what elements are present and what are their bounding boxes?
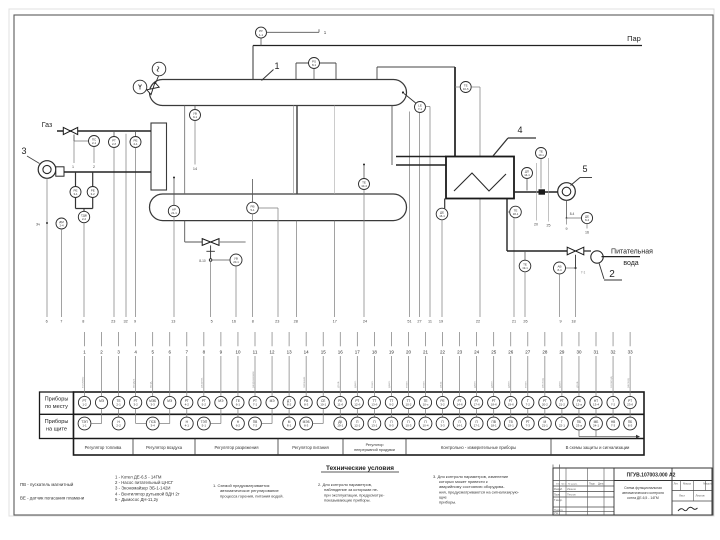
svg-text:17-б: 17-б: [474, 403, 480, 407]
svg-text:14: 14: [304, 349, 310, 354]
svg-text:7: 7: [60, 320, 62, 324]
svg-text:ПВ - пускатель магнитный: ПВ - пускатель магнитный: [20, 482, 74, 487]
instrument ТЕ 19-1: [519, 260, 531, 272]
svg-text:Масштаб: Масштаб: [703, 483, 714, 486]
svg-text:23-б: 23-б: [627, 403, 633, 407]
blower fan 3 inner: [43, 165, 51, 173]
svg-text:12-1: 12-1: [354, 424, 360, 428]
label 2 underline: [604, 279, 622, 281]
svg-text:8-4: 8-4: [585, 218, 589, 222]
safety valve stem: [155, 75, 159, 84]
instrument РВ 5-1 on lower drum: [247, 202, 259, 214]
tap nub on drum right end: [402, 91, 404, 93]
svg-text:темп.: темп.: [404, 380, 408, 388]
feedwater valve: [567, 247, 584, 255]
svg-text:15: 15: [321, 349, 327, 354]
svg-text:Листов: Листов: [695, 494, 705, 498]
signal line 21: [513, 218, 515, 317]
svg-text:2-1: 2-1: [92, 141, 96, 145]
manifold header: [296, 62, 336, 64]
svg-text:18: 18: [571, 320, 575, 324]
svg-text:7-3: 7-3: [611, 424, 616, 428]
svg-text:2-1: 2-1: [116, 403, 121, 407]
svg-text:9: 9: [559, 320, 561, 324]
table column 4: [130, 332, 147, 424]
svg-text:21: 21: [512, 320, 516, 324]
svg-text:10: 10: [235, 349, 241, 354]
svg-text:12-б: 12-б: [354, 403, 360, 407]
link stem to ПС 2-1: [74, 140, 89, 142]
svg-text:10-4: 10-4: [422, 424, 428, 428]
svg-text:Лист: Лист: [561, 484, 566, 486]
svg-text:уров.: уров.: [336, 381, 340, 388]
stem PS 8-1 down: [313, 69, 315, 80]
air duct: [64, 171, 151, 173]
junction circle: [209, 259, 212, 262]
svg-text:7-1: 7-1: [253, 403, 258, 407]
table column 32: [607, 332, 620, 430]
svg-text:Подп.: Подп.: [589, 483, 596, 486]
svg-text:30: 30: [576, 349, 582, 354]
label 3 leader: [27, 156, 40, 164]
svg-text:Т.контр.: Т.контр.: [554, 499, 563, 502]
table column 10: [232, 332, 245, 430]
svg-text:51: 51: [407, 320, 411, 324]
svg-text:питание: питание: [302, 376, 306, 388]
svg-text:10-1: 10-1: [320, 403, 326, 407]
tap ТЕ 18-1: [507, 211, 510, 213]
stem ТЕ 10-3: [540, 159, 542, 189]
gas control valve: [63, 127, 77, 134]
table column 6: [159, 332, 176, 424]
svg-text:2-2: 2-2: [82, 217, 86, 221]
leader nub to LE: [404, 94, 416, 104]
table column 16: [334, 332, 347, 430]
economizer box (4): [446, 157, 514, 199]
eco inlet pipe down: [506, 199, 508, 252]
blowdown pipe from drum: [184, 221, 186, 242]
stem ТЕ 19-1: [524, 251, 526, 260]
svg-text:16: 16: [585, 231, 589, 235]
feedwater pipe right: [584, 250, 591, 252]
table column 12: [261, 332, 278, 424]
svg-text:21-1: 21-1: [542, 424, 548, 428]
svg-text:10-3: 10-3: [405, 424, 411, 428]
link АВ 8-4 to stem: [566, 267, 576, 269]
svg-text:7-2: 7-2: [611, 403, 616, 407]
table column 17: [351, 332, 364, 430]
svg-text:8-3: 8-3: [304, 403, 309, 407]
svg-text:13: 13: [171, 320, 175, 324]
sampling dot above drum (21-1): [173, 177, 175, 179]
table column 26: [504, 332, 517, 430]
signal line 5: [210, 261, 212, 317]
signal line 51: [409, 112, 411, 318]
svg-text:7-2: 7-2: [526, 403, 531, 407]
svg-text:Питательная: Питательная: [611, 249, 653, 256]
table column 18: [368, 332, 381, 430]
svg-text:5: 5: [582, 164, 587, 174]
svg-text:8-5: 8-5: [628, 424, 633, 428]
table column 8: [197, 332, 210, 430]
svg-text:18-б: 18-б: [491, 403, 497, 407]
svg-text:Контрольно - измерительные при: Контрольно - измерительные приборы: [441, 445, 516, 450]
svg-text:26: 26: [523, 320, 527, 324]
svg-text:9-1: 9-1: [193, 115, 197, 119]
svg-text:топливо: топливо: [80, 376, 84, 388]
title block grid: [553, 465, 712, 516]
signal line 9 left: [135, 148, 137, 318]
svg-text:2: 2: [609, 269, 615, 280]
svg-text:25: 25: [491, 349, 497, 354]
svg-text:14-1: 14-1: [524, 173, 530, 177]
svg-text:Зч: Зч: [36, 223, 40, 227]
instrument PS 8-1 (drum level column): [309, 58, 320, 69]
feedwater pipe underline: [602, 256, 641, 258]
TE elbow right: [471, 86, 480, 88]
svg-text:21: 21: [423, 349, 429, 354]
svg-text:Масса: Масса: [683, 482, 691, 486]
svg-text:4 - Вентилятор дутьевой ВДН: 4 - Вентилятор дутьевой ВДН 2т: [115, 491, 180, 496]
svg-text:19: 19: [389, 349, 395, 354]
svg-text:23-а: 23-а: [576, 424, 582, 428]
svg-text:12: 12: [270, 349, 276, 354]
svg-text:МЭ: МЭ: [99, 399, 105, 403]
table column 19: [385, 332, 398, 430]
instrument РЕ 3-1: [70, 187, 81, 198]
svg-text:МЭ: МЭ: [270, 399, 276, 403]
group divider x=133: [132, 439, 134, 456]
svg-text:давл.: давл.: [353, 380, 357, 388]
svg-text:воздух: воздух: [131, 378, 135, 388]
table column 11: [249, 332, 262, 430]
svg-text:2 - Насос питательный ЦНСГ: 2 - Насос питательный ЦНСГ: [115, 480, 174, 485]
svg-text:20-2: 20-2: [542, 403, 548, 407]
signal line to note 1: [267, 31, 320, 33]
svg-text:на щите: на щите: [46, 427, 67, 433]
instrument РЕ 2-1: [130, 137, 141, 148]
signal line 26: [524, 272, 526, 317]
svg-text:7-1: 7-1: [581, 271, 586, 275]
svg-text:27: 27: [417, 320, 421, 324]
svg-text:2-б: 2-б: [112, 142, 116, 146]
svg-text:12-а: 12-а: [576, 403, 582, 407]
svg-text:10-з: 10-з: [423, 403, 429, 407]
signature scribble: [678, 507, 698, 511]
svg-text:процесса горения, питания во: процесса горения, питания водой.: [220, 493, 284, 498]
signal line 32: [125, 134, 127, 317]
table column 28: [538, 332, 551, 430]
instrument ТЕ 10-4: [359, 179, 370, 190]
riser pipe from drum top: [376, 67, 378, 80]
svg-text:8: 8: [252, 320, 254, 324]
svg-text:2-4: 2-4: [59, 224, 63, 228]
svg-text:Приборы: Приборы: [45, 397, 69, 403]
svg-text:возд.: возд.: [149, 381, 153, 388]
blowdown valve: [202, 239, 219, 246]
signal line 24: [363, 190, 365, 318]
svg-text:19-1: 19-1: [508, 424, 514, 428]
signal line 7: [61, 229, 63, 317]
svg-text:16: 16: [232, 320, 236, 324]
svg-text:3-4: 3-4: [151, 424, 156, 428]
signal line 20: [536, 163, 538, 221]
svg-text:Регулятор питания: Регулятор питания: [292, 445, 329, 450]
svg-text:1-1: 1-1: [259, 33, 263, 37]
stub line 9r: [566, 218, 568, 225]
gas valve stem wire: [73, 141, 75, 163]
svg-text:9-2: 9-2: [389, 403, 394, 407]
upper boiler drum (1): [150, 80, 407, 106]
svg-text:6: 6: [46, 320, 48, 324]
table column 22: [436, 332, 449, 430]
table column 14: [300, 332, 313, 430]
svg-text:20: 20: [534, 223, 538, 227]
svg-text:Регулятор воздуха: Регулятор воздуха: [146, 445, 183, 450]
signal line 17: [334, 221, 336, 317]
svg-text:2-2: 2-2: [116, 424, 121, 428]
svg-text:23: 23: [111, 320, 115, 324]
table column 7: [180, 332, 193, 430]
instrument РТ 2-б: [109, 137, 120, 148]
svg-text:10-з: 10-з: [538, 153, 544, 157]
furnace front box: [151, 123, 167, 190]
instrument ДЕ 16-1 at eco outlet: [436, 208, 448, 220]
table column 2: [91, 332, 108, 424]
svg-text:17: 17: [355, 349, 361, 354]
header pipe horizontal: [377, 66, 455, 68]
svg-text:26: 26: [508, 349, 514, 354]
svg-text:33: 33: [628, 349, 634, 354]
stem РЕ 3-2: [92, 172, 94, 187]
signal line 22: [479, 87, 481, 317]
table column 1: [78, 332, 91, 430]
table column 21: [419, 332, 432, 430]
wire from ПС 2-1: [93, 147, 95, 164]
instrument LE 7-1: [415, 102, 426, 113]
svg-text:16-1: 16-1: [439, 214, 445, 218]
smoke exhauster 5 inner: [562, 187, 571, 196]
svg-text:Пар: Пар: [627, 34, 641, 43]
svg-text:солесод.: солесод.: [609, 376, 613, 388]
svg-text:8-4: 8-4: [570, 212, 575, 216]
svg-text:13-4: 13-4: [593, 403, 599, 407]
svg-text:Регулятор: Регулятор: [366, 443, 384, 447]
svg-text:18-1: 18-1: [491, 424, 497, 428]
svg-text:ния, предусматриваются на с: ния, предусматриваются на сигнализирую-: [439, 489, 520, 494]
svg-text:3 - Экономайзер ЭБ-1-142И: 3 - Экономайзер ЭБ-1-142И: [115, 486, 170, 491]
svg-text:10-б: 10-б: [463, 87, 469, 91]
svg-text:24-1: 24-1: [593, 424, 599, 428]
gas pipe: [57, 130, 151, 132]
svg-text:25: 25: [547, 224, 551, 228]
svg-text:24: 24: [474, 349, 480, 354]
svg-text:Дата: Дата: [598, 483, 604, 486]
svg-text:3-1: 3-1: [73, 192, 77, 196]
svg-text:Газ: Газ: [42, 122, 52, 129]
svg-text:7-3: 7-3: [526, 424, 531, 428]
table row divider 2: [74, 438, 645, 440]
heading underline: [321, 471, 399, 473]
stem ДЕ 16-1 up: [444, 199, 446, 209]
link РЕ pair horizontal: [76, 208, 93, 210]
svg-text:8-2: 8-2: [287, 403, 292, 407]
instrument TE 10-b: [460, 82, 471, 93]
gas valve stem: [73, 135, 75, 142]
title block small labels: [554, 483, 604, 515]
svg-text:17-1: 17-1: [474, 424, 480, 428]
flue duct bottom line: [396, 164, 446, 166]
stem ТЕ 10-4: [363, 166, 365, 179]
fan outlet box: [56, 167, 64, 176]
svg-text:№ докум.: № докум.: [568, 483, 578, 486]
instrument ПС 2-1: [89, 136, 100, 147]
group divider x=343: [342, 439, 344, 456]
svg-text:31: 31: [593, 349, 599, 354]
signal line 28: [296, 221, 298, 317]
svg-text:давл.: давл.: [387, 380, 391, 388]
svg-text:19-1: 19-1: [522, 266, 528, 270]
steam pipe elbow down to drum: [252, 46, 254, 80]
svg-text:19: 19: [439, 320, 443, 324]
svg-text:8-3: 8-3: [304, 424, 309, 428]
svg-text:5-2: 5-2: [202, 403, 207, 407]
svg-text:8-4: 8-4: [557, 268, 561, 272]
svg-text:Технические условия: Технические условия: [326, 465, 394, 472]
svg-text:11: 11: [428, 320, 432, 324]
svg-text:ПГУВ.107003.000 А2: ПГУВ.107003.000 А2: [627, 473, 676, 479]
label 4 underline: [508, 137, 536, 139]
svg-text:11-б: 11-б: [337, 403, 343, 407]
table label box: [40, 392, 74, 439]
table column 3: [112, 332, 125, 430]
sampling dot ТЕ 10-4: [363, 164, 365, 166]
svg-text:8: 8: [82, 320, 84, 324]
svg-text:7-2: 7-2: [253, 424, 258, 428]
instrument УВ 20-1: [230, 254, 242, 266]
feed valve junction: [574, 267, 576, 269]
instrument АР 21-1 on lower drum: [168, 205, 179, 216]
label 4 leader: [493, 138, 508, 156]
svg-text:4-2: 4-2: [185, 403, 190, 407]
svg-text:5 - Дымосос ДН-11,2у: 5 - Дымосос ДН-11,2у: [115, 497, 159, 502]
link junction to УВ 20-1: [212, 259, 230, 261]
svg-text:9: 9: [134, 320, 136, 324]
svg-text:1: 1: [274, 61, 279, 71]
table column 27: [521, 332, 534, 430]
table column 33: [624, 332, 637, 430]
table column 15: [313, 332, 330, 424]
svg-text:Лист: Лист: [679, 494, 686, 498]
svg-text:3-2: 3-2: [440, 403, 445, 407]
svg-text:28: 28: [294, 320, 298, 324]
svg-text:23: 23: [457, 349, 463, 354]
svg-text:Иванов: Иванов: [567, 487, 577, 491]
table column 13: [283, 332, 296, 430]
signal line 25: [548, 158, 550, 222]
svg-text:8-1: 8-1: [312, 63, 316, 67]
svg-text:1-2: 1-2: [82, 403, 87, 407]
safety valve on drum left end: [147, 82, 159, 94]
group divider x=406: [405, 439, 407, 456]
svg-text:6-2: 6-2: [236, 424, 241, 428]
table column 24: [470, 332, 483, 430]
svg-text:8-10: 8-10: [199, 259, 206, 263]
stem ДП 14-1: [526, 179, 528, 191]
svg-text:28: 28: [542, 349, 548, 354]
stem to ТДФ 2-2: [83, 209, 85, 212]
flue duct top line: [396, 156, 446, 158]
svg-text:МЭ: МЭ: [167, 399, 173, 403]
group divider x=278: [277, 439, 279, 456]
svg-text:5-1: 5-1: [250, 208, 254, 212]
svg-text:Пров.: Пров.: [554, 494, 561, 497]
routing line to protection box: [578, 430, 580, 437]
instrument bubble above safety valve: [152, 62, 166, 76]
svg-text:21-2: 21-2: [559, 403, 565, 407]
signal line 27: [419, 113, 421, 317]
svg-text:21-1: 21-1: [171, 211, 177, 215]
stem РТ 2-б to gas pipe: [113, 131, 115, 137]
stem РЕ 3-1: [75, 172, 77, 187]
svg-text:разреж.: разреж.: [200, 377, 204, 388]
feed pump circle (2): [591, 251, 603, 263]
blowdown valve stem: [210, 245, 212, 258]
svg-text:14: 14: [193, 167, 197, 171]
table column 25: [487, 332, 500, 430]
instrument ДМ 2-4: [56, 218, 67, 229]
svg-text:показывающие приборы.: показывающие приборы.: [324, 498, 371, 503]
svg-text:Схема функциональная: Схема функциональная: [624, 486, 662, 490]
smoke exhauster 5 outer: [558, 183, 576, 201]
svg-text:Петров: Петров: [567, 493, 576, 497]
svg-text:14-б: 14-б: [457, 403, 463, 407]
tube bundle line b (thick): [296, 106, 298, 195]
svg-text:Утв.: Утв.: [554, 512, 559, 515]
svg-text:14-1: 14-1: [457, 424, 463, 428]
svg-text:1-1: 1-1: [82, 424, 87, 428]
svg-text:3-2: 3-2: [91, 192, 95, 196]
svg-text:Разраб.: Разраб.: [554, 488, 563, 491]
svg-text:3-2: 3-2: [133, 403, 138, 407]
svg-text:20-1: 20-1: [233, 260, 239, 264]
instrument УВ 9-1 under drum: [190, 110, 201, 121]
label 5 leader: [571, 178, 581, 186]
eco outlet pipe: [514, 191, 558, 193]
svg-text:Изм: Изм: [556, 484, 561, 486]
svg-text:В схемы защиты и сигнализации: В схемы защиты и сигнализации: [566, 445, 630, 450]
signal line 17 upper part: [334, 106, 336, 195]
svg-text:по месту: по месту: [45, 404, 68, 410]
svg-text:уров.: уров.: [575, 381, 579, 388]
svg-text:9: 9: [566, 227, 568, 231]
svg-text:10-4: 10-4: [361, 184, 367, 188]
downcomer pipe to economizer: [454, 67, 456, 157]
link РЕ pair down right: [92, 198, 94, 209]
svg-text:22: 22: [440, 349, 446, 354]
tap TE to downcomer: [455, 86, 460, 88]
svg-text:18-1: 18-1: [513, 212, 519, 216]
svg-text:22: 22: [476, 320, 480, 324]
table column 31: [590, 332, 603, 430]
blower fan 3 outer: [38, 161, 56, 179]
svg-text:разрежение: разрежение: [251, 371, 255, 388]
svg-text:19-б: 19-б: [508, 403, 514, 407]
svg-text:5: 5: [211, 320, 213, 324]
svg-text:7-1: 7-1: [418, 107, 422, 111]
svg-text:разр.: разр.: [438, 381, 442, 388]
table label divider: [40, 413, 74, 415]
